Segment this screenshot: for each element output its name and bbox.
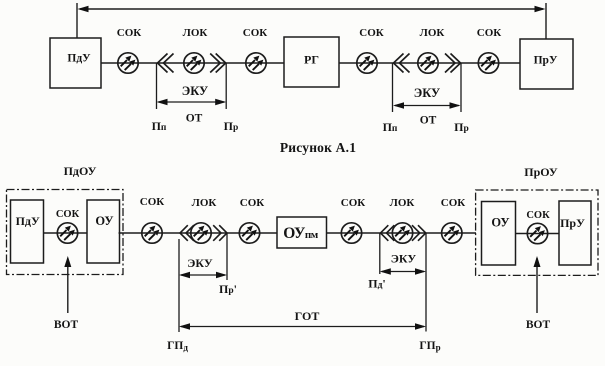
tick Пр boundary 1	[225, 63, 227, 109]
svg-text:Пр: Пр	[454, 120, 469, 134]
svg-text:ОУ: ОУ	[491, 216, 509, 230]
arrow ВОТ (right)	[534, 256, 541, 313]
wire main line b1	[142, 232, 277, 234]
svg-text:СОК: СОК	[240, 197, 265, 209]
svg-text:ПдОУ: ПдОУ	[64, 164, 97, 178]
svg-text:Рисунок А.1: Рисунок А.1	[280, 140, 356, 155]
block ОУ (right)	[482, 202, 516, 266]
block ОУ (left)	[87, 200, 120, 263]
connector СОК b4	[442, 223, 462, 243]
tick ГПд boundary (long)	[178, 239, 180, 332]
enclosure ПрОУ dashed box	[476, 190, 598, 275]
svg-text:СОК: СОК	[341, 197, 366, 209]
svg-text:ВОТ: ВОТ	[54, 319, 79, 331]
wire: top span double-headed arrow	[78, 6, 546, 13]
connector ЛОК b1	[191, 223, 211, 243]
dimension ЭКУ 1 arrow	[157, 99, 227, 105]
tick ГПр boundary (long)	[425, 233, 427, 332]
dimension ЭКУ 2 arrow	[393, 102, 461, 108]
splice chevrons left of ЛОК b1	[180, 225, 194, 241]
svg-text:СОК: СОК	[359, 27, 384, 39]
svg-text:СОК: СОК	[243, 27, 268, 39]
tick Пд' boundary (short)	[379, 233, 381, 274]
svg-text:Пд': Пд'	[368, 277, 386, 291]
tick Пр' boundary (short)	[226, 233, 228, 280]
svg-text:ВОТ: ВОТ	[526, 319, 551, 331]
connector ЛОК 2	[418, 53, 438, 73]
svg-text:Пр': Пр'	[219, 282, 237, 296]
connector СОК (in ПдОУ)	[57, 223, 77, 243]
arrow ВОТ (left)	[64, 256, 71, 313]
svg-text:ПрОУ: ПрОУ	[524, 165, 558, 179]
block ОУпм	[277, 217, 327, 248]
svg-text:ОУпм: ОУпм	[283, 225, 318, 242]
tick Пр boundary 2	[460, 63, 462, 112]
connector СОК b2	[239, 223, 259, 243]
dimension ЭКУ b2 arrow	[380, 268, 426, 274]
svg-text:СОК: СОК	[441, 197, 466, 209]
enclosure ПдОУ dashed box	[7, 190, 124, 275]
splice chevrons left of ЛОК 2	[394, 54, 410, 73]
svg-text:ПдУ: ПдУ	[16, 214, 40, 228]
wire ОУ to main line	[119, 232, 143, 234]
block ПрУ	[520, 39, 573, 89]
connector ЛОК b2	[392, 223, 412, 243]
connector СОК 4	[478, 53, 498, 73]
svg-text:ЛОК: ЛОК	[390, 197, 415, 209]
svg-text:Пп: Пп	[383, 120, 398, 134]
svg-text:ЛОК: ЛОК	[192, 197, 217, 209]
block ПдУ (bottom)	[11, 200, 44, 263]
wire: main line ПдУ to РГ	[101, 62, 284, 64]
connector ЛОК 1	[184, 53, 204, 73]
splice chevrons left of ЛОК 1	[158, 54, 174, 73]
svg-text:ПрУ: ПрУ	[560, 216, 585, 230]
tick Пп boundary 2	[392, 63, 394, 112]
svg-text:ПрУ: ПрУ	[534, 55, 558, 67]
svg-text:СОК: СОК	[477, 27, 502, 39]
dimension ЭКУ b1 arrow	[179, 272, 227, 278]
connector СОК (in ПрОУ)	[527, 223, 547, 243]
block ПдУ	[50, 38, 101, 88]
tick Пп boundary 1	[156, 63, 158, 109]
svg-text:ОУ: ОУ	[95, 214, 113, 228]
splice chevrons right of ЛОК 1	[210, 54, 226, 73]
svg-text:СОК: СОК	[117, 27, 142, 39]
svg-text:ЭКУ: ЭКУ	[182, 84, 208, 98]
connector СОК b1	[142, 223, 162, 243]
connector СОК 1	[118, 53, 138, 73]
wire: feedback vertical above ПрУ	[545, 3, 547, 39]
block РГ	[284, 37, 339, 87]
connector СОК 3	[357, 53, 377, 73]
svg-text:СОК: СОК	[56, 209, 80, 220]
svg-text:ЛОК: ЛОК	[183, 27, 208, 39]
svg-text:ПдУ: ПдУ	[67, 53, 91, 65]
block ПрУ (bottom)	[559, 201, 591, 265]
wire ПдУ to ОУ	[44, 232, 87, 234]
dimension ГОТ arrow	[179, 323, 426, 329]
svg-text:ЛОК: ЛОК	[420, 27, 445, 39]
svg-text:Пп: Пп	[152, 119, 167, 133]
svg-text:ГПд: ГПд	[167, 340, 188, 353]
svg-text:ОТ: ОТ	[420, 115, 437, 127]
wire ОУ to СОК (right)	[516, 233, 559, 235]
svg-text:ГПр: ГПр	[419, 340, 440, 353]
wire: main line РГ to ПрУ	[339, 62, 520, 64]
svg-text:ЭКУ: ЭКУ	[391, 252, 417, 266]
svg-text:ГОТ: ГОТ	[295, 309, 320, 323]
svg-text:Пр: Пр	[224, 119, 239, 133]
connector СОК b3	[341, 223, 361, 243]
svg-text:ЭКУ: ЭКУ	[187, 256, 213, 270]
svg-text:СОК: СОК	[140, 196, 165, 208]
wire: feedback vertical above ПдУ	[76, 3, 78, 38]
svg-text:РГ: РГ	[304, 53, 319, 67]
svg-text:СОК: СОК	[526, 210, 550, 221]
svg-text:ЭКУ: ЭКУ	[414, 86, 440, 100]
connector СОК 2	[246, 53, 266, 73]
svg-text:ОТ: ОТ	[186, 113, 203, 125]
splice chevrons left of ЛОК b2	[381, 225, 395, 241]
wire main line b2	[327, 232, 477, 234]
splice chevrons right of ЛОК b2	[412, 225, 426, 241]
splice chevrons right of ЛОК 2	[445, 54, 461, 73]
splice chevrons right of ЛОК b1	[213, 225, 227, 241]
